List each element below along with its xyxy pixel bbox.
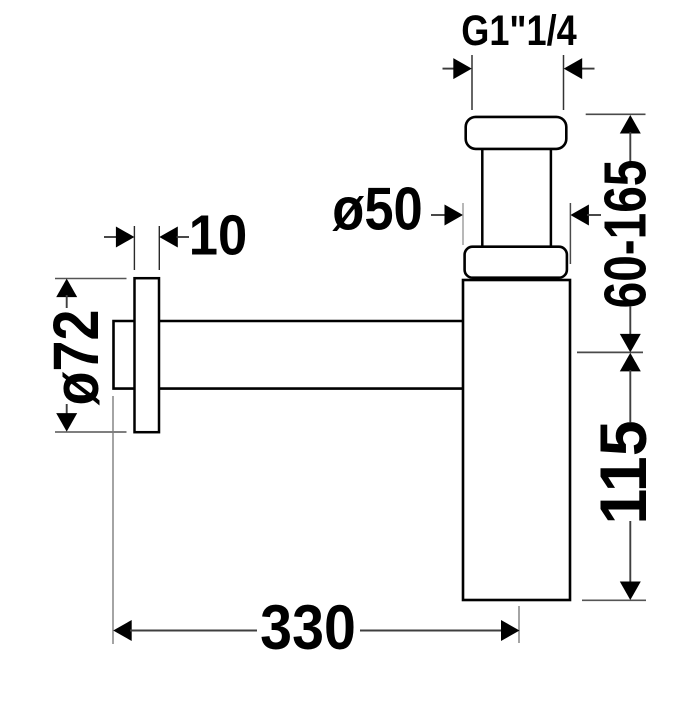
10 right arrow (159, 227, 189, 248)
svg-text:330: 330 (260, 591, 356, 662)
330 left extension line (112, 396, 114, 644)
ø72 top arrow (56, 279, 77, 308)
svg-text:115: 115 (587, 420, 661, 524)
60-165 dimension line lower (620, 306, 641, 352)
lower nut (465, 247, 567, 278)
60-165 top reference line (586, 113, 646, 115)
svg-text:ø50: ø50 (332, 175, 422, 242)
115 dimension line lower (620, 521, 641, 600)
svg-text:G1"1/4: G1"1/4 (461, 7, 576, 55)
ø50 left extension line (462, 203, 464, 245)
ø50 left arrow (431, 205, 463, 226)
ø50 right arrow (570, 205, 601, 226)
115 bottom tick line (582, 599, 646, 601)
wall flange (135, 278, 160, 432)
10 left extension line (133, 226, 135, 270)
330 right extension line (518, 606, 520, 643)
G1"1/4 left extension line (471, 55, 473, 110)
330 right arrow (360, 620, 520, 641)
60-165 dimension line upper (620, 115, 641, 162)
330 left arrow (113, 620, 257, 641)
G1"1/4 left arrow (443, 58, 472, 79)
ø50 right extension line (569, 203, 571, 264)
inlet tube (threaded pipe between nuts) (482, 148, 551, 247)
trap body (463, 280, 570, 600)
svg-text:60-165: 60-165 (593, 160, 659, 309)
mid tick line between 60-165 and 115 (577, 351, 643, 353)
ø72 bottom arrow (56, 404, 77, 432)
G1"1/4 right arrow (564, 58, 595, 79)
horizontal pipe (114, 321, 464, 389)
10 right extension line (158, 226, 160, 270)
10 left arrow (104, 227, 134, 248)
svg-text:10: 10 (189, 204, 247, 267)
G1"1/4 right extension line (563, 55, 565, 110)
ø72 bottom extension line (55, 431, 127, 433)
svg-text:ø72: ø72 (40, 310, 111, 406)
115 dimension line upper (620, 353, 641, 422)
ø72 top extension line (55, 278, 127, 280)
top nut (466, 117, 567, 149)
